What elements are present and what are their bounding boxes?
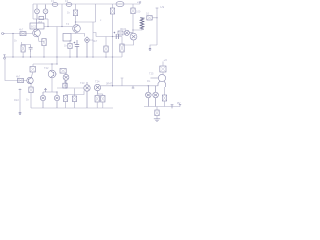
node coil junction — [132, 29, 133, 30]
wire elbow — [93, 33, 96, 37]
terminal gnd — [19, 113, 22, 115]
transistor T4 — [73, 25, 81, 33]
node — [112, 36, 113, 37]
wire emitter T4 — [71, 32, 76, 33]
wire — [65, 95, 67, 109]
svg-text:T4: T4 — [66, 22, 70, 26]
resistor R12 — [131, 8, 135, 14]
wire coil top — [142, 16, 145, 19]
svg-text:+V: +V — [164, 58, 168, 62]
wire — [156, 116, 158, 119]
stub — [121, 78, 124, 86]
terminal +V — [139, 2, 141, 4]
node — [156, 17, 157, 18]
wire — [76, 34, 85, 37]
wire long vertical — [56, 27, 58, 65]
wire VAS bus — [76, 21, 96, 23]
inductor L1 — [140, 17, 144, 30]
wire — [105, 37, 107, 58]
wire — [164, 101, 166, 107]
wire y94.5 — [66, 91, 85, 95]
wire — [132, 14, 134, 33]
resistor R29 — [155, 110, 159, 116]
diode D26 — [153, 86, 159, 107]
wire — [121, 52, 123, 57]
resistor R4 — [42, 39, 46, 46]
svg-text:2k2: 2k2 — [38, 20, 43, 24]
resistor R10 — [120, 44, 124, 52]
ground arrow — [44, 88, 46, 92]
svg-text:1k: 1k — [67, 11, 70, 15]
transistor T5 driver — [124, 30, 133, 35]
wire — [43, 46, 45, 57]
svg-text:+V: +V — [137, 0, 141, 4]
diode D21 — [63, 73, 69, 88]
wire emitter — [38, 37, 44, 42]
ground — [154, 119, 160, 122]
input terminal IN1 — [2, 33, 5, 35]
svg-text:10: 10 — [146, 12, 149, 16]
node — [75, 21, 76, 22]
wire — [156, 107, 158, 111]
capacitor C1 — [29, 45, 33, 52]
svg-text:RL: RL — [147, 79, 151, 83]
resistor R21 — [18, 78, 24, 82]
node input junction — [12, 33, 13, 34]
wire supply drop — [112, 4, 114, 8]
transistor T2 — [43, 5, 48, 20]
wire — [121, 37, 123, 45]
wire supply drop lower — [112, 14, 114, 86]
resistor R25 — [72, 96, 76, 102]
svg-text:4k7: 4k7 — [93, 39, 98, 43]
wire — [133, 28, 142, 30]
junction tick — [132, 86, 135, 89]
wire — [12, 34, 14, 58]
diode D23 — [54, 92, 59, 108]
resistor R3 — [39, 16, 44, 19]
transistor T25 — [151, 74, 166, 87]
wire current-mirror bottom — [33, 18, 48, 20]
node dots rail — [12, 56, 113, 57]
wire — [61, 26, 63, 28]
node — [51, 63, 52, 64]
wire — [95, 4, 97, 22]
wire mid rail 0V — [5, 56, 123, 58]
diode D22 — [40, 92, 45, 108]
wire — [30, 93, 32, 108]
node — [56, 63, 57, 64]
wire diode drop — [164, 87, 166, 95]
node — [65, 87, 66, 88]
box bias — [63, 34, 71, 42]
svg-text:BC5: BC5 — [31, 25, 37, 29]
transistor T24 — [94, 84, 100, 94]
diode D25 — [146, 86, 152, 107]
terminal left — [3, 55, 5, 59]
resistor R13 — [147, 16, 152, 20]
wire — [92, 22, 94, 57]
svg-text:1k: 1k — [14, 39, 17, 43]
wire bottom right — [144, 106, 180, 108]
resistor R1 — [20, 32, 26, 36]
svg-text:1k: 1k — [26, 98, 29, 102]
tick — [19, 89, 22, 91]
fuse F2 — [66, 3, 72, 7]
resistor R24 — [63, 96, 67, 102]
capacitor C5 polarized — [114, 32, 119, 39]
wire feedback top — [22, 42, 31, 45]
wire base bus — [44, 26, 73, 28]
fuse F1 — [52, 3, 58, 7]
wire y92 — [43, 91, 57, 93]
wire top supply rail — [33, 3, 140, 5]
svg-text:T23: T23 — [80, 81, 85, 85]
resistor R28 — [162, 95, 166, 101]
resistor R27 — [101, 96, 105, 103]
svg-text:100: 100 — [136, 10, 141, 14]
wire ch2 input drop — [5, 59, 27, 81]
diode D24 — [160, 66, 166, 72]
svg-text:R22: R22 — [14, 98, 19, 102]
wire — [152, 17, 157, 19]
svg-text:x: x — [100, 19, 102, 22]
wire ch2 bottom rail — [31, 107, 113, 109]
wire — [32, 4, 34, 19]
wire — [61, 4, 63, 27]
svg-text:LS: LS — [161, 5, 165, 9]
box label T3 — [30, 23, 44, 29]
wire ch2 output — [101, 85, 159, 87]
svg-text:0V: 0V — [177, 101, 181, 105]
resistor R6 — [73, 10, 77, 16]
resistor R8 — [110, 8, 114, 14]
resistor R26 — [95, 96, 99, 103]
box R23 — [60, 69, 66, 74]
wire emitter — [122, 40, 134, 45]
meter M1 — [116, 1, 124, 6]
node — [56, 91, 57, 92]
capacitor C21 — [30, 67, 36, 73]
svg-text:0R47: 0R47 — [106, 82, 113, 86]
resistor R11 — [118, 31, 123, 35]
wire T21 emitter — [30, 84, 32, 87]
terminal 0V — [179, 104, 181, 106]
svg-text:T22: T22 — [44, 66, 49, 70]
wire — [51, 64, 53, 92]
svg-text:T25: T25 — [149, 72, 154, 76]
resistor R7 — [68, 44, 72, 49]
wire — [74, 89, 76, 109]
wire — [97, 94, 103, 108]
junction tick — [171, 104, 174, 108]
capacitor C22 — [63, 81, 67, 88]
wire output vertical — [150, 8, 157, 48]
node A — [47, 26, 48, 27]
node — [112, 85, 113, 86]
svg-text:4k7: 4k7 — [16, 75, 21, 79]
wire ch2 mid — [57, 87, 84, 89]
capacitor C2 polarized — [74, 40, 80, 57]
svg-text:4k7: 4k7 — [19, 28, 24, 32]
transistor T22 VAS — [48, 70, 57, 78]
wire — [97, 93, 103, 95]
wire — [132, 4, 134, 8]
transistor T1 — [35, 5, 40, 20]
wire — [31, 64, 33, 77]
resistor R22 — [29, 87, 33, 93]
transistor T21 — [27, 77, 33, 84]
diode D1 — [85, 37, 90, 58]
transistor T23 — [84, 82, 90, 108]
svg-text:1k: 1k — [64, 44, 67, 48]
wire — [69, 40, 71, 57]
wire ground stub — [19, 89, 21, 113]
wire — [162, 62, 164, 75]
wire input — [5, 33, 32, 35]
wire ch2 top bus — [33, 63, 57, 65]
resistor R9 — [104, 46, 108, 52]
terminal out tick — [149, 8, 159, 50]
wire collector T4 — [75, 4, 77, 25]
wire — [47, 19, 49, 27]
node — [148, 85, 149, 86]
transistor T6 output — [130, 33, 137, 40]
resistor R2 — [21, 45, 25, 52]
transistor T3 — [33, 19, 41, 37]
wire — [23, 45, 30, 58]
node B — [61, 26, 62, 27]
wire mid bus — [96, 36, 122, 38]
svg-text:T24: T24 — [95, 80, 100, 84]
